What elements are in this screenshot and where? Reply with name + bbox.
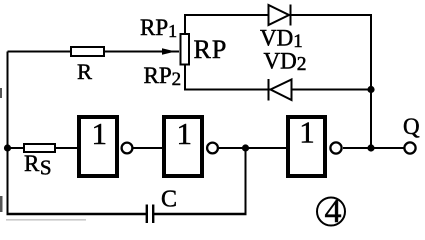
svg-text:C: C [161, 187, 177, 213]
svg-text:4: 4 [325, 193, 342, 230]
svg-text:Q: Q [403, 114, 420, 139]
svg-text:RS: RS [24, 151, 52, 180]
svg-text:RP: RP [194, 35, 228, 64]
svg-text:1: 1 [177, 116, 193, 151]
svg-text:1: 1 [299, 115, 315, 150]
svg-text:1: 1 [92, 116, 108, 151]
svg-text:R: R [77, 59, 92, 84]
